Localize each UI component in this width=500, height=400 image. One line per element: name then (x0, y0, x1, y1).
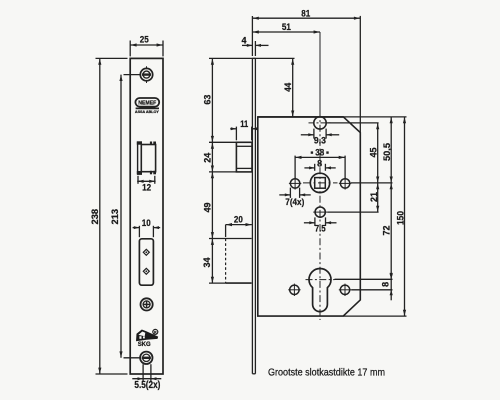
SKG logo (136, 329, 158, 347)
svg-text:72: 72 (382, 226, 393, 236)
case top edge + extension (258, 116, 407, 118)
euro cylinder profile (306, 269, 335, 312)
deadbolt screw diamond 2 (143, 268, 149, 274)
screw hole 7mm left of cylinder (288, 284, 300, 296)
svg-text:SKG: SKG (138, 342, 151, 348)
dim 8 square (304, 158, 335, 170)
dim 44 (283, 58, 294, 117)
extension cylinder level to right dims (335, 278, 393, 280)
extension 9.3 level to 45 dim (327, 122, 379, 124)
svg-text:Grootste slotkastdikte 17 mm: Grootste slotkastdikte 17 mm (268, 366, 385, 378)
svg-text:7(4x): 7(4x) (285, 197, 304, 208)
svg-text:NEMEF: NEMEF (138, 101, 157, 107)
follower hole 9.3 (314, 117, 326, 129)
dim 20 (226, 215, 252, 237)
dim 51 (252, 22, 320, 34)
dim 81 (252, 9, 360, 20)
svg-text:213: 213 (110, 209, 121, 225)
svg-text:12: 12 (142, 183, 151, 194)
svg-text:7.5: 7.5 (315, 224, 327, 235)
extension 7.5 level to right dims (327, 211, 378, 213)
dim 238 line (98, 58, 101, 374)
dim 8 right (381, 274, 393, 301)
svg-text:44: 44 (283, 82, 294, 92)
side view faceplate strip (252, 58, 255, 373)
label 213 (110, 209, 121, 225)
spindle follower circle (310, 173, 329, 192)
svg-text:50,5: 50,5 (382, 142, 393, 161)
dim 24 (203, 142, 215, 172)
bottom note text (268, 366, 385, 378)
svg-text:4: 4 (242, 35, 248, 46)
svg-text:5.5(2x): 5.5(2x) (134, 380, 160, 391)
lock case outline (258, 117, 361, 316)
svg-text:34: 34 (202, 257, 213, 268)
dim 34 (202, 239, 214, 284)
label 25 (140, 34, 150, 45)
svg-text:10: 10 (142, 218, 151, 229)
dim 5.5(2x) (132, 364, 161, 391)
deadbolt cutout (139, 239, 153, 285)
bottom screw hole (140, 352, 152, 364)
extension screw level to right dims (351, 289, 392, 291)
dim 25 extension lines (130, 41, 163, 57)
dim 50.5 (382, 117, 393, 183)
spindle square 8mm (315, 178, 326, 189)
screw hole 7mm left of spindle (289, 177, 301, 189)
latch bolt side view (236, 142, 252, 172)
svg-text:8: 8 (381, 282, 392, 287)
dim 81 extensions (252, 16, 360, 133)
svg-text:49: 49 (202, 203, 213, 213)
dim 72 (382, 183, 393, 279)
faceplate front view outline (130, 58, 163, 374)
dim 238 extension lines (96, 58, 128, 374)
middle screw hole (141, 298, 153, 310)
dim 4 (242, 35, 269, 56)
svg-text:20: 20 (234, 215, 243, 226)
follower 9.3 centerline (309, 122, 332, 124)
svg-text:81: 81 (301, 9, 311, 20)
svg-text:51: 51 (282, 22, 292, 33)
dim chain 63/24/49/34 extension lines (209, 58, 295, 283)
dim 21 (369, 183, 380, 212)
dim 11 (230, 119, 258, 140)
case bottom extension (343, 315, 406, 317)
dim 150 (395, 117, 406, 316)
spindle horizontal centerline (303, 182, 338, 184)
svg-text:21: 21 (369, 191, 380, 202)
dim 49 (202, 172, 214, 239)
screw hole 7mm right of spindle (339, 177, 351, 189)
center extension line from 51 to case (319, 32, 321, 111)
hole 7.5 (313, 207, 327, 217)
dim 7.5 (304, 217, 337, 234)
dim 9.3 (301, 129, 339, 147)
NEMEF logo (135, 98, 160, 114)
screw hole 7mm right of cylinder (339, 284, 351, 296)
center vertical dashed line (319, 111, 321, 321)
dim 45 (368, 123, 379, 183)
svg-text:238: 238 (90, 209, 101, 225)
latch cutout (137, 142, 156, 175)
svg-text:11: 11 (240, 119, 249, 130)
svg-text:63: 63 (203, 95, 214, 105)
label 238 (90, 209, 101, 225)
deadbolt side view (226, 239, 252, 284)
dim 38 (295, 148, 345, 180)
dim 12 (137, 176, 155, 194)
extension spindle level to right dims (351, 182, 393, 184)
svg-text:45: 45 (368, 147, 379, 158)
dim 7(4x) (279, 188, 310, 208)
svg-text:ASSA ABLOY: ASSA ABLOY (135, 110, 160, 114)
dim 213 extension to top screw (124, 75, 141, 358)
svg-text:25: 25 (140, 34, 150, 45)
dim 10 (133, 218, 161, 237)
svg-text:24: 24 (203, 152, 214, 163)
dim 25 line (130, 43, 163, 46)
svg-text:150: 150 (395, 211, 406, 225)
dim 63 (203, 58, 214, 142)
deadbolt screw diamond 1 (143, 249, 149, 255)
dim 213 line (119, 75, 122, 358)
top screw hole (140, 66, 152, 83)
